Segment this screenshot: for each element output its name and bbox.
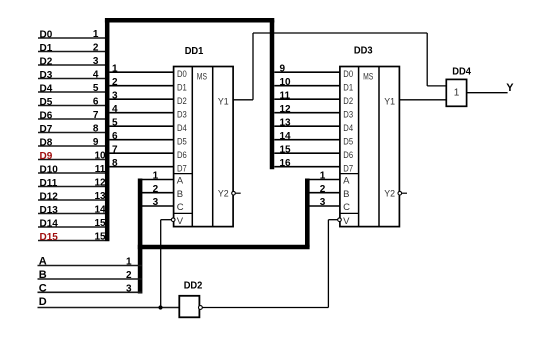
svg-text:D2: D2 xyxy=(343,96,353,107)
svg-text:C: C xyxy=(39,282,47,294)
svg-text:DD3: DD3 xyxy=(354,46,373,57)
svg-text:D0: D0 xyxy=(177,69,187,80)
svg-text:12: 12 xyxy=(94,178,106,189)
svg-text:D6: D6 xyxy=(177,150,187,161)
svg-text:15: 15 xyxy=(280,144,292,155)
svg-text:D6: D6 xyxy=(40,110,53,121)
svg-text:9: 9 xyxy=(93,137,99,148)
svg-text:7: 7 xyxy=(112,144,118,155)
svg-text:MS: MS xyxy=(363,71,373,82)
svg-text:DD4: DD4 xyxy=(452,66,471,77)
svg-text:14: 14 xyxy=(94,205,106,216)
svg-text:B: B xyxy=(177,189,183,200)
svg-text:16: 16 xyxy=(280,158,292,169)
svg-text:D5: D5 xyxy=(40,97,53,108)
svg-text:D5: D5 xyxy=(343,136,353,147)
svg-text:D6: D6 xyxy=(343,150,353,161)
svg-text:D4: D4 xyxy=(343,123,353,134)
svg-text:D9: D9 xyxy=(40,151,53,162)
svg-text:2: 2 xyxy=(112,77,118,88)
svg-text:D1: D1 xyxy=(343,82,353,93)
svg-text:2: 2 xyxy=(153,184,159,195)
svg-text:D15: D15 xyxy=(40,232,59,243)
svg-text:8: 8 xyxy=(93,124,99,135)
svg-text:D7: D7 xyxy=(343,163,353,174)
svg-text:3: 3 xyxy=(320,197,326,208)
svg-text:6: 6 xyxy=(93,97,99,108)
svg-text:1: 1 xyxy=(320,171,326,182)
svg-text:3: 3 xyxy=(93,56,99,67)
svg-text:6: 6 xyxy=(112,131,118,142)
svg-text:2: 2 xyxy=(93,43,99,54)
svg-text:13: 13 xyxy=(94,191,106,202)
svg-text:10: 10 xyxy=(94,151,106,162)
svg-text:5: 5 xyxy=(112,117,118,128)
svg-text:C: C xyxy=(343,202,350,213)
svg-text:D3: D3 xyxy=(40,70,53,81)
svg-text:Y: Y xyxy=(506,82,514,94)
svg-text:V: V xyxy=(177,216,184,227)
svg-text:D5: D5 xyxy=(177,136,187,147)
svg-text:D14: D14 xyxy=(40,218,59,229)
svg-text:V: V xyxy=(343,216,350,227)
svg-text:11: 11 xyxy=(95,164,106,175)
svg-text:D12: D12 xyxy=(40,191,59,202)
svg-text:4: 4 xyxy=(112,104,118,115)
svg-text:15: 15 xyxy=(94,232,106,243)
svg-text:D7: D7 xyxy=(40,124,53,135)
svg-text:B: B xyxy=(343,189,349,200)
svg-text:1: 1 xyxy=(93,29,99,40)
svg-text:D: D xyxy=(39,296,47,308)
svg-text:3: 3 xyxy=(126,284,132,295)
svg-text:3: 3 xyxy=(112,90,118,101)
svg-text:1: 1 xyxy=(126,257,132,268)
svg-text:DD1: DD1 xyxy=(185,46,204,57)
svg-text:1: 1 xyxy=(112,63,118,74)
svg-text:D3: D3 xyxy=(343,109,353,120)
svg-text:14: 14 xyxy=(280,131,292,142)
svg-text:8: 8 xyxy=(112,158,118,169)
svg-text:D8: D8 xyxy=(40,137,53,148)
svg-text:D1: D1 xyxy=(40,43,53,54)
svg-text:2: 2 xyxy=(126,270,132,281)
svg-text:13: 13 xyxy=(280,117,292,128)
svg-text:MS: MS xyxy=(197,71,207,82)
svg-text:3: 3 xyxy=(153,197,159,208)
svg-text:5: 5 xyxy=(93,83,99,94)
svg-text:D2: D2 xyxy=(40,56,53,67)
svg-text:7: 7 xyxy=(93,110,99,121)
svg-text:D10: D10 xyxy=(40,164,59,175)
svg-text:D0: D0 xyxy=(343,69,353,80)
svg-text:B: B xyxy=(39,269,47,281)
svg-text:D11: D11 xyxy=(40,178,58,189)
svg-text:D7: D7 xyxy=(177,163,187,174)
svg-text:A: A xyxy=(343,176,350,187)
svg-text:Y2: Y2 xyxy=(218,188,229,199)
svg-text:10: 10 xyxy=(280,77,292,88)
svg-text:Y2: Y2 xyxy=(384,188,395,199)
svg-text:A: A xyxy=(177,176,184,187)
svg-text:A: A xyxy=(39,256,47,268)
svg-text:11: 11 xyxy=(280,90,291,101)
svg-text:C: C xyxy=(177,202,184,213)
svg-text:D4: D4 xyxy=(177,123,187,134)
svg-text:1: 1 xyxy=(454,87,460,98)
svg-text:Y1: Y1 xyxy=(384,97,395,108)
svg-text:DD2: DD2 xyxy=(184,280,203,291)
svg-text:D4: D4 xyxy=(40,83,53,94)
svg-text:D1: D1 xyxy=(177,82,187,93)
svg-text:15: 15 xyxy=(94,218,106,229)
svg-text:D2: D2 xyxy=(177,96,187,107)
svg-text:12: 12 xyxy=(280,104,292,115)
svg-text:D0: D0 xyxy=(40,29,53,40)
svg-text:D13: D13 xyxy=(40,205,59,216)
svg-text:Y1: Y1 xyxy=(218,97,229,108)
svg-text:D3: D3 xyxy=(177,109,187,120)
svg-text:1: 1 xyxy=(153,171,159,182)
svg-text:2: 2 xyxy=(320,184,326,195)
svg-text:9: 9 xyxy=(280,63,286,74)
svg-text:4: 4 xyxy=(93,70,99,81)
